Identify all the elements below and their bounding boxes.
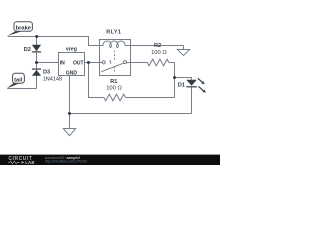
resistor R2 zigzag bbox=[147, 59, 169, 66]
svg-text:GND: GND bbox=[66, 71, 78, 77]
resistor R1 zigzag bbox=[104, 94, 126, 101]
wire OUT down to R1 bbox=[89, 63, 104, 98]
watermark bar bbox=[0, 155, 220, 165]
node flag brake bbox=[7, 30, 23, 36]
wire vreg OUT to switch bbox=[85, 62, 103, 64]
wire tail net horizontal bbox=[7, 88, 36, 90]
svg-text:100 Ω: 100 Ω bbox=[106, 85, 122, 91]
svg-text:100 Ω: 100 Ω bbox=[151, 50, 167, 56]
svg-text:R2: R2 bbox=[154, 43, 161, 49]
svg-text:RLY1: RLY1 bbox=[106, 30, 121, 36]
relay switch blade bbox=[101, 63, 123, 71]
svg-text:D3: D3 bbox=[43, 70, 50, 76]
LED arrow 2 bbox=[199, 86, 204, 90]
ground top right bbox=[177, 50, 189, 56]
vreg box bbox=[59, 53, 85, 76]
junction dot tail/IN bbox=[35, 61, 38, 64]
wire jog down to coil bbox=[89, 37, 103, 46]
svg-text:OUT: OUT bbox=[73, 61, 84, 67]
diode D3 bbox=[32, 69, 41, 70]
svg-text:http://circuitlab.com/c/7bn53: http://circuitlab.com/c/7bn53 bbox=[45, 160, 87, 164]
svg-text:R1: R1 bbox=[110, 79, 117, 85]
wire node to LED anode bbox=[175, 78, 192, 80]
node flag tail bbox=[7, 83, 20, 89]
wire switch right to R2 bbox=[127, 62, 148, 64]
junction dot R-node to LED bbox=[173, 76, 176, 79]
svg-text:brake: brake bbox=[16, 26, 32, 32]
svg-text:tail: tail bbox=[14, 77, 23, 83]
wire coil right to ground bbox=[127, 45, 184, 47]
logo zigzag bbox=[8, 161, 20, 164]
wire R1 right bbox=[126, 97, 175, 99]
logo diode mark bbox=[22, 161, 25, 163]
relay actuator arrow bbox=[109, 61, 112, 64]
ground bottom center bbox=[63, 129, 75, 136]
wire bottom return bbox=[70, 113, 192, 115]
wire vreg GND down bbox=[69, 76, 71, 129]
LED D1 bbox=[186, 80, 197, 86]
relay RLY1 box bbox=[100, 40, 131, 76]
LED arrow 1 bbox=[198, 78, 203, 82]
svg-text:LAB: LAB bbox=[25, 160, 35, 165]
wire ground stem top right bbox=[183, 46, 185, 51]
relay switch right contact bbox=[124, 61, 127, 64]
wire vreg IN bbox=[37, 62, 59, 64]
wire LED cathode down bbox=[191, 87, 193, 113]
svg-text:D1: D1 bbox=[178, 83, 185, 89]
wire brake net horizontal bbox=[8, 36, 90, 38]
relay coil bbox=[100, 41, 131, 47]
svg-text:D2: D2 bbox=[24, 47, 31, 53]
svg-text:1N4148: 1N4148 bbox=[43, 77, 62, 83]
relay dashed actuator line bbox=[114, 51, 116, 61]
junction dot vreg OUT bbox=[87, 61, 90, 64]
junction dot brake/D2 bbox=[35, 35, 38, 38]
diode D2 bbox=[32, 45, 41, 52]
svg-text:vreg: vreg bbox=[66, 47, 77, 53]
relay switch left contact bbox=[102, 61, 105, 64]
svg-text:IN: IN bbox=[60, 61, 65, 67]
wire diode chain vertical bbox=[36, 37, 38, 46]
junction dot GND return bbox=[68, 112, 71, 115]
wire R2 right corner bbox=[169, 63, 175, 98]
